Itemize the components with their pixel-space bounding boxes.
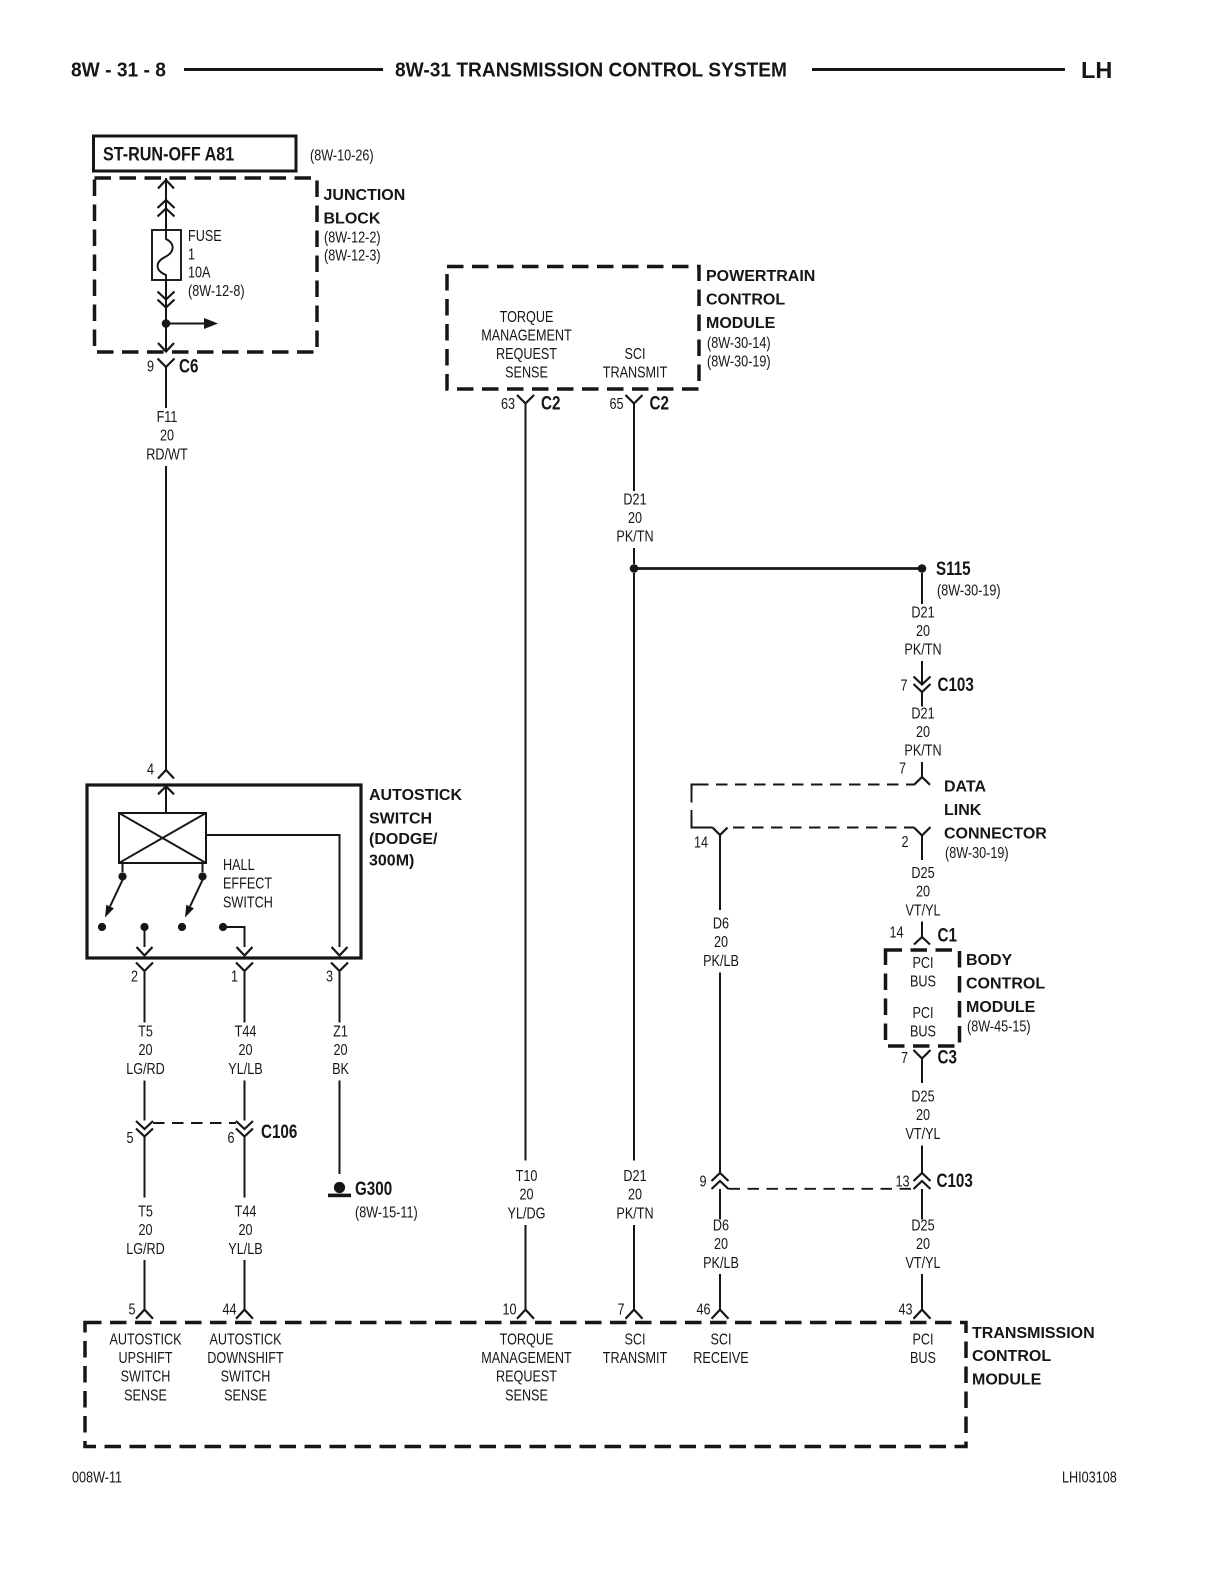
svg-text:SCI: SCI bbox=[624, 1331, 645, 1349]
arrow down at pin 2 bbox=[137, 947, 153, 956]
svg-text:ST-RUN-OFF A81: ST-RUN-OFF A81 bbox=[103, 143, 234, 165]
DLC internal corner left bbox=[692, 785, 704, 792]
svg-text:T10: T10 bbox=[516, 1168, 538, 1186]
svg-text:REQUEST: REQUEST bbox=[496, 346, 557, 364]
splice S115 wire bbox=[634, 567, 922, 570]
svg-text:C103: C103 bbox=[938, 673, 974, 695]
body control module dashed box bbox=[886, 950, 960, 1046]
svg-text:1: 1 bbox=[188, 246, 195, 264]
svg-text:20: 20 bbox=[138, 1042, 152, 1060]
svg-text:20: 20 bbox=[238, 1222, 252, 1240]
transmission control module dashed box bbox=[85, 1323, 966, 1447]
arrow up to A81 bbox=[158, 180, 174, 189]
svg-text:20: 20 bbox=[714, 1236, 728, 1254]
svg-text:20: 20 bbox=[916, 1236, 930, 1254]
svg-text:D21: D21 bbox=[911, 705, 934, 723]
svg-text:7: 7 bbox=[899, 760, 906, 778]
svg-text:BUS: BUS bbox=[910, 973, 936, 991]
left pivot stem and dot bbox=[122, 863, 124, 872]
hall element crossed box bbox=[119, 813, 206, 863]
svg-text:5: 5 bbox=[126, 1130, 133, 1148]
svg-text:TORQUE: TORQUE bbox=[500, 1331, 554, 1349]
svg-text:LH: LH bbox=[1081, 57, 1112, 83]
svg-text:SENSE: SENSE bbox=[224, 1387, 267, 1405]
svg-text:C6: C6 bbox=[179, 355, 198, 377]
svg-text:TRANSMISSION: TRANSMISSION bbox=[972, 1325, 1095, 1342]
svg-text:BK: BK bbox=[332, 1061, 349, 1079]
svg-text:JUNCTION: JUNCTION bbox=[324, 187, 406, 204]
wire D21 upper bbox=[633, 421, 635, 492]
wire D21 to DLC bbox=[921, 692, 923, 707]
fuse F1 10A bbox=[152, 230, 181, 280]
wire D25 lower bbox=[921, 1189, 923, 1220]
svg-text:(8W-12-2): (8W-12-2) bbox=[324, 229, 381, 247]
svg-text:VT/YL: VT/YL bbox=[905, 902, 940, 920]
svg-text:D25: D25 bbox=[911, 1088, 934, 1106]
pin 4 connector chevron bbox=[158, 770, 174, 779]
svg-text:C2: C2 bbox=[650, 392, 669, 414]
svg-text:D6: D6 bbox=[713, 915, 729, 933]
wire T44 upper bbox=[244, 986, 246, 1023]
svg-text:20: 20 bbox=[916, 1107, 930, 1125]
svg-text:UPSHIFT: UPSHIFT bbox=[118, 1350, 172, 1368]
svg-text:20: 20 bbox=[714, 934, 728, 952]
svg-text:65: 65 bbox=[609, 396, 623, 414]
svg-text:5: 5 bbox=[128, 1301, 135, 1319]
svg-text:FUSE: FUSE bbox=[188, 228, 222, 246]
svg-text:8W - 31 - 8: 8W - 31 - 8 bbox=[71, 59, 166, 81]
wire dot b to pin 2 bbox=[144, 931, 146, 948]
connector C6 bbox=[158, 359, 175, 368]
splice junction dot bbox=[630, 564, 639, 573]
header rule right bbox=[812, 68, 1065, 71]
svg-text:7: 7 bbox=[901, 1050, 908, 1068]
svg-text:AUTOSTICK: AUTOSTICK bbox=[369, 787, 462, 804]
wire F11 lower segment bbox=[165, 466, 167, 770]
DLC internal corner bottom bbox=[692, 816, 713, 828]
wire T10 bbox=[525, 421, 527, 1161]
svg-text:(8W-12-3): (8W-12-3) bbox=[324, 247, 381, 265]
svg-text:20: 20 bbox=[628, 510, 642, 528]
svg-text:RECEIVE: RECEIVE bbox=[693, 1350, 748, 1368]
svg-text:CONTROL: CONTROL bbox=[706, 292, 785, 309]
wire D6 from pin 14 bbox=[719, 835, 721, 910]
svg-text:20: 20 bbox=[916, 724, 930, 742]
DLC internal dashed wire top bbox=[697, 784, 914, 786]
svg-text:VT/YL: VT/YL bbox=[905, 1255, 940, 1273]
wire D21 to TCM bbox=[633, 573, 635, 1161]
svg-text:MODULE: MODULE bbox=[966, 999, 1036, 1016]
svg-text:C1: C1 bbox=[938, 924, 958, 946]
arrow up inside box at pin 4 bbox=[158, 786, 174, 794]
svg-text:SCI: SCI bbox=[710, 1331, 731, 1349]
wire fuse to junction dot bbox=[165, 280, 167, 352]
svg-text:AUTOSTICK: AUTOSTICK bbox=[209, 1331, 281, 1349]
svg-text:YL/LB: YL/LB bbox=[228, 1061, 262, 1079]
svg-text:TRANSMIT: TRANSMIT bbox=[603, 1350, 668, 1368]
svg-text:PK/TN: PK/TN bbox=[904, 641, 941, 659]
svg-text:HALL: HALL bbox=[223, 857, 255, 875]
svg-text:(8W-30-19): (8W-30-19) bbox=[945, 845, 1009, 863]
svg-text:YL/DG: YL/DG bbox=[508, 1205, 546, 1223]
svg-text:D21: D21 bbox=[911, 604, 934, 622]
DLC internal dashed wire bottom bbox=[733, 827, 908, 829]
wire T5 upper bbox=[144, 986, 146, 1023]
svg-text:SCI: SCI bbox=[624, 346, 645, 364]
svg-text:TORQUE: TORQUE bbox=[500, 309, 554, 327]
svg-text:(8W-30-19): (8W-30-19) bbox=[937, 582, 1001, 600]
svg-text:D6: D6 bbox=[713, 1217, 729, 1235]
wire T44 lower bbox=[244, 1137, 246, 1198]
svg-text:8W-31 TRANSMISSION CONTROL SYS: 8W-31 TRANSMISSION CONTROL SYSTEM bbox=[395, 59, 787, 81]
svg-text:PK/LB: PK/LB bbox=[703, 953, 739, 971]
svg-text:SENSE: SENSE bbox=[124, 1387, 167, 1405]
svg-text:63: 63 bbox=[501, 396, 515, 414]
junction dot bbox=[162, 319, 171, 328]
wire D6 lower bbox=[719, 1189, 721, 1220]
double chevron up bbox=[158, 200, 175, 217]
svg-text:CONTROL: CONTROL bbox=[966, 976, 1045, 993]
svg-text:C106: C106 bbox=[261, 1120, 297, 1142]
svg-text:6: 6 bbox=[227, 1130, 234, 1148]
svg-text:POWERTRAIN: POWERTRAIN bbox=[706, 268, 815, 285]
svg-text:PK/TN: PK/TN bbox=[616, 528, 653, 546]
svg-text:(8W-15-11): (8W-15-11) bbox=[355, 1204, 418, 1222]
svg-text:(8W-10-26): (8W-10-26) bbox=[310, 147, 374, 165]
svg-text:PCI: PCI bbox=[912, 955, 933, 973]
svg-text:T5: T5 bbox=[138, 1023, 153, 1041]
svg-text:LG/RD: LG/RD bbox=[126, 1061, 165, 1079]
svg-text:LINK: LINK bbox=[944, 802, 982, 819]
svg-text:DATA: DATA bbox=[944, 779, 987, 796]
svg-text:T5: T5 bbox=[138, 1203, 153, 1221]
svg-text:46: 46 bbox=[696, 1301, 710, 1319]
svg-text:F11: F11 bbox=[157, 409, 178, 427]
svg-text:7: 7 bbox=[617, 1301, 624, 1319]
ground G300 bbox=[334, 1182, 345, 1193]
double chevron down below fuse bbox=[158, 292, 175, 308]
svg-text:LG/RD: LG/RD bbox=[126, 1241, 165, 1259]
svg-text:T44: T44 bbox=[235, 1023, 257, 1041]
svg-text:D25: D25 bbox=[911, 1217, 934, 1235]
svg-text:SWITCH: SWITCH bbox=[223, 894, 273, 912]
svg-text:SWITCH: SWITCH bbox=[221, 1368, 271, 1386]
svg-text:C103: C103 bbox=[937, 1169, 973, 1191]
svg-text:BUS: BUS bbox=[910, 1350, 936, 1368]
svg-text:D25: D25 bbox=[911, 865, 934, 883]
wire Z1 bbox=[339, 986, 341, 1023]
svg-text:2: 2 bbox=[131, 968, 138, 986]
svg-text:20: 20 bbox=[138, 1222, 152, 1240]
svg-text:EFFECT: EFFECT bbox=[223, 875, 272, 893]
svg-text:MANAGEMENT: MANAGEMENT bbox=[481, 327, 572, 345]
contact dot d (pin 1) bbox=[219, 923, 227, 931]
arrow down at pin 1 bbox=[237, 947, 253, 956]
svg-text:(8W-30-19): (8W-30-19) bbox=[707, 353, 771, 371]
svg-text:20: 20 bbox=[916, 883, 930, 901]
svg-text:3: 3 bbox=[326, 968, 333, 986]
svg-text:BUS: BUS bbox=[910, 1023, 936, 1041]
svg-text:SWITCH: SWITCH bbox=[369, 811, 432, 828]
feed arrow right bbox=[166, 323, 205, 325]
right pivot stem and dot bbox=[202, 863, 204, 872]
svg-text:YL/LB: YL/LB bbox=[228, 1241, 262, 1259]
left switch arm bbox=[110, 880, 123, 907]
wire from A81 through fuse bbox=[165, 178, 167, 230]
svg-text:(DODGE/: (DODGE/ bbox=[369, 831, 438, 848]
svg-text:D21: D21 bbox=[623, 1168, 646, 1186]
svg-text:14: 14 bbox=[889, 924, 903, 942]
svg-text:20: 20 bbox=[333, 1042, 347, 1060]
splice S115 dot bbox=[918, 564, 927, 573]
C103 dashed link bbox=[729, 1188, 914, 1190]
svg-text:(8W-12-8): (8W-12-8) bbox=[188, 283, 245, 301]
svg-text:14: 14 bbox=[694, 834, 708, 852]
svg-text:CONTROL: CONTROL bbox=[972, 1348, 1051, 1365]
svg-text:BODY: BODY bbox=[966, 952, 1013, 969]
wire T5 lower bbox=[144, 1137, 146, 1198]
svg-text:20: 20 bbox=[238, 1042, 252, 1060]
svg-text:CONNECTOR: CONNECTOR bbox=[944, 826, 1047, 843]
svg-text:300M): 300M) bbox=[369, 852, 414, 869]
header rule left bbox=[184, 68, 383, 71]
wire F11 bbox=[165, 378, 167, 408]
svg-text:Z1: Z1 bbox=[333, 1023, 348, 1041]
powertrain control module dashed box bbox=[447, 267, 699, 390]
svg-text:LHI03108: LHI03108 bbox=[1062, 1469, 1117, 1487]
svg-text:PCI: PCI bbox=[912, 1331, 933, 1349]
svg-text:MANAGEMENT: MANAGEMENT bbox=[481, 1350, 572, 1368]
svg-text:44: 44 bbox=[222, 1301, 236, 1319]
svg-text:9: 9 bbox=[147, 358, 154, 376]
svg-text:7: 7 bbox=[900, 677, 907, 695]
contact dot c bbox=[178, 923, 186, 931]
svg-text:PK/TN: PK/TN bbox=[616, 1205, 653, 1223]
svg-text:DOWNSHIFT: DOWNSHIFT bbox=[207, 1350, 284, 1368]
junction block dashed box bbox=[95, 178, 318, 352]
svg-text:PK/TN: PK/TN bbox=[904, 742, 941, 760]
right switch arm bbox=[190, 880, 203, 907]
svg-text:T44: T44 bbox=[235, 1203, 257, 1221]
wire hall box to pin 3 bbox=[206, 835, 340, 947]
wire dot d to pin 1 bbox=[227, 927, 245, 947]
svg-text:RD/WT: RD/WT bbox=[146, 446, 188, 464]
svg-text:AUTOSTICK: AUTOSTICK bbox=[109, 1331, 181, 1349]
svg-text:C3: C3 bbox=[938, 1046, 957, 1068]
svg-text:(8W-45-15): (8W-45-15) bbox=[967, 1018, 1031, 1036]
svg-text:SWITCH: SWITCH bbox=[121, 1368, 171, 1386]
svg-text:SENSE: SENSE bbox=[505, 364, 548, 382]
C106 internal dashed link bbox=[153, 1122, 236, 1124]
svg-text:PK/LB: PK/LB bbox=[703, 1255, 739, 1273]
svg-text:TRANSMIT: TRANSMIT bbox=[603, 364, 668, 382]
arrow down at pin 3 bbox=[332, 947, 348, 956]
svg-text:43: 43 bbox=[898, 1301, 912, 1319]
svg-text:G300: G300 bbox=[355, 1177, 392, 1199]
svg-text:D21: D21 bbox=[623, 491, 646, 509]
arrow down at junction block edge bbox=[158, 343, 174, 352]
svg-text:20: 20 bbox=[519, 1186, 533, 1204]
svg-text:1: 1 bbox=[231, 968, 238, 986]
svg-text:9: 9 bbox=[699, 1173, 706, 1191]
svg-text:008W-11: 008W-11 bbox=[72, 1469, 122, 1487]
wire D21 from S115 down bbox=[921, 573, 923, 604]
svg-text:2: 2 bbox=[901, 834, 908, 852]
autostick switch box bbox=[87, 785, 361, 958]
DLC internal dashed vertical bbox=[691, 791, 693, 818]
svg-text:S115: S115 bbox=[936, 557, 971, 579]
svg-text:20: 20 bbox=[628, 1186, 642, 1204]
svg-text:REQUEST: REQUEST bbox=[496, 1368, 557, 1386]
svg-text:(8W-30-14): (8W-30-14) bbox=[707, 335, 771, 353]
svg-text:MODULE: MODULE bbox=[706, 315, 776, 332]
svg-text:20: 20 bbox=[916, 623, 930, 641]
svg-text:10A: 10A bbox=[188, 264, 211, 282]
svg-text:MODULE: MODULE bbox=[972, 1372, 1042, 1389]
svg-text:VT/YL: VT/YL bbox=[905, 1126, 940, 1144]
svg-text:BLOCK: BLOCK bbox=[324, 211, 381, 228]
svg-text:20: 20 bbox=[160, 427, 174, 445]
power source box ST-RUN-OFF A81 bbox=[94, 136, 297, 171]
wire pin4 to hall box bbox=[165, 786, 167, 813]
svg-text:PCI: PCI bbox=[912, 1005, 933, 1023]
svg-text:10: 10 bbox=[502, 1301, 516, 1319]
svg-text:SENSE: SENSE bbox=[505, 1387, 548, 1405]
svg-text:C2: C2 bbox=[541, 392, 560, 414]
contact dot b (pin 2) bbox=[140, 923, 148, 931]
svg-text:4: 4 bbox=[147, 761, 154, 779]
contact dot a bbox=[98, 923, 106, 931]
